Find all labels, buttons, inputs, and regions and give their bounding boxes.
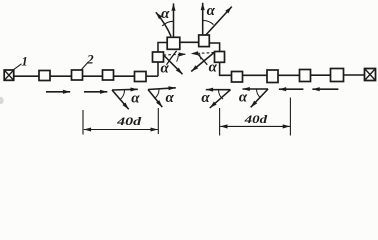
element box 6 bbox=[267, 70, 278, 83]
beam symbol L1: angle arc bbox=[120, 90, 125, 100]
wire: link between the two top boxes bbox=[180, 41, 199, 43]
wire: right feeder segment from element 8 to load bbox=[344, 74, 365, 76]
top box R1 (right radiator) bbox=[199, 35, 210, 47]
dimension line 40d (left) bbox=[84, 129, 158, 131]
svg-text:1: 1 bbox=[21, 55, 27, 69]
angle arc at box R2 bbox=[200, 53, 201, 59]
element box 7 bbox=[300, 70, 311, 82]
svg-text:40d: 40d bbox=[116, 114, 143, 128]
wire: right upper riser from top box R1 to box R2 bbox=[209, 43, 219, 52]
beam symbol R1: angle arc bbox=[219, 90, 224, 99]
beam symbol L2: angle arc bbox=[154, 90, 159, 99]
dashed axis arrow from box L2 toward centre bbox=[164, 53, 187, 56]
vertical beam arrow of top box R1 bbox=[202, 3, 204, 35]
wire: right feeder segment between element 6 and element 7 bbox=[278, 74, 300, 76]
wire: left feeder segment from generator to element 1 bbox=[14, 75, 40, 77]
wire: left feeder segment between element 3 and element 4 bbox=[114, 75, 135, 77]
beam symbol L2 below feeder: horizontal ray bbox=[148, 88, 176, 90]
beam symbol L1: slanted ray bbox=[112, 90, 129, 109]
element box 3 bbox=[103, 70, 114, 80]
wave arrow down-right from box L2 bbox=[164, 55, 183, 74]
wire: left feeder segment between element 2 and element 3 bbox=[83, 75, 103, 77]
wire: left feeder segment between element 1 and element 2 bbox=[50, 75, 72, 77]
svg-text:2: 2 bbox=[86, 52, 94, 67]
travelling-wave arrow 1 (left, points right) bbox=[46, 91, 70, 93]
travelling-wave arrow 4 (right, points left) bbox=[312, 88, 338, 90]
vertical beam arrow of top box L1 bbox=[173, 3, 175, 37]
angle arc at top box R1 bbox=[203, 20, 214, 24]
wave arrow down-left at box L2 bbox=[167, 51, 177, 65]
dimension extension tick right-B bbox=[289, 98, 291, 136]
wire: left riser from feeder up to box L2 bbox=[157, 62, 159, 76]
wire: right riser from box R2 down to feeder bbox=[220, 62, 232, 75]
travelling-wave arrow 3 (right, points left) bbox=[279, 88, 304, 90]
svg-text:α: α bbox=[239, 90, 248, 106]
box R2 (right second-level coupler) bbox=[215, 52, 225, 63]
beam symbol R2: slanted ray bbox=[251, 89, 268, 107]
travelling-wave arrow 2 (left, points right) bbox=[84, 91, 107, 93]
beam symbol R1 below feeder: horizontal ray bbox=[206, 89, 231, 91]
svg-text:α: α bbox=[161, 6, 170, 22]
wire: right feeder segment between element 7 and element 8 bbox=[311, 74, 331, 76]
leader line for label 2 bbox=[82, 62, 89, 69]
angle arc at top box L1 bbox=[162, 21, 173, 26]
element box 2 bbox=[72, 70, 83, 80]
dimension extension tick left-A bbox=[82, 110, 84, 135]
svg-text:40d: 40d bbox=[243, 112, 268, 126]
wave arrow down-right at box R2 bbox=[197, 54, 207, 65]
leader line for label 1 bbox=[13, 64, 21, 70]
svg-text:α: α bbox=[207, 3, 216, 19]
angle arc at box L2 bbox=[177, 55, 179, 61]
wire: left feeder segment from element 4 to riser bbox=[146, 75, 158, 77]
svg-text:α: α bbox=[131, 91, 140, 107]
element box 4 bbox=[135, 72, 147, 82]
dimension extension tick left-B bbox=[157, 108, 159, 134]
wire: left upper riser from box L2 to top box L1 bbox=[158, 43, 167, 53]
slanted beam arrow of top box L1 bbox=[156, 12, 171, 36]
svg-text:α: α bbox=[161, 61, 170, 77]
scan smudge at left edge bbox=[0, 97, 4, 104]
svg-text:α: α bbox=[165, 90, 174, 106]
dimension extension tick right-A bbox=[219, 108, 221, 136]
beam symbol L2: slanted ray bbox=[148, 90, 162, 108]
wire: right feeder segment between element 5 and element 6 bbox=[243, 74, 268, 76]
dashed axis arrow from box R2 toward centre bbox=[191, 53, 214, 54]
generator G1 (crossed box, left end) bbox=[4, 70, 14, 80]
beam symbol R2 below feeder: horizontal ray bbox=[243, 88, 269, 90]
beam symbol R1: slanted ray bbox=[210, 90, 231, 108]
element box 8 bbox=[331, 69, 344, 82]
slanted beam arrow of top box R1 bbox=[206, 7, 232, 35]
beam symbol R2: angle arc bbox=[257, 89, 261, 98]
svg-text:α: α bbox=[209, 60, 218, 76]
svg-text:α: α bbox=[201, 90, 210, 106]
load G2 (crossed box, right end) bbox=[365, 69, 376, 81]
beam symbol L1 below feeder: horizontal ray bbox=[112, 88, 138, 91]
element box 1 bbox=[39, 71, 50, 81]
wave arrow down-left from box R2 bbox=[191, 53, 214, 72]
top box L1 (left radiator) bbox=[167, 37, 180, 49]
box L2 (left second-level coupler) bbox=[153, 52, 164, 62]
element box 5 bbox=[232, 72, 243, 83]
dimension line 40d (right) bbox=[220, 125, 290, 127]
